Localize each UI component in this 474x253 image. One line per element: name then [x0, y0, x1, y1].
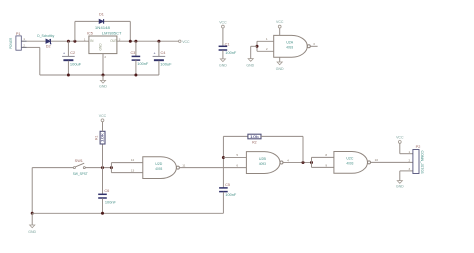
svg-text:SW_SPST: SW_SPST — [73, 172, 89, 176]
svg-text:GND: GND — [246, 63, 254, 67]
svg-text:12: 12 — [131, 158, 135, 162]
svg-text:10: 10 — [375, 158, 379, 162]
svg-text:R2: R2 — [252, 141, 257, 145]
svg-text:6: 6 — [236, 163, 238, 167]
svg-text:4093: 4093 — [155, 167, 162, 171]
svg-text:11: 11 — [182, 163, 185, 167]
svg-text:VCC: VCC — [99, 114, 107, 118]
svg-text:1N4148: 1N4148 — [95, 26, 110, 30]
svg-text:1: 1 — [84, 37, 86, 41]
svg-text:VCC: VCC — [276, 20, 284, 24]
svg-text:D2: D2 — [46, 44, 51, 48]
svg-text:2: 2 — [409, 158, 411, 162]
svg-text:IC5: IC5 — [87, 31, 93, 35]
svg-text:C1: C1 — [225, 42, 230, 46]
svg-text:4: 4 — [287, 158, 289, 162]
svg-text:5: 5 — [236, 153, 238, 157]
svg-text:2: 2 — [266, 47, 268, 51]
svg-text:100nF: 100nF — [225, 51, 237, 55]
svg-text:U2C: U2C — [346, 157, 353, 161]
svg-text:4093: 4093 — [259, 162, 266, 166]
svg-text:1: 1 — [23, 37, 25, 41]
svg-text:D_Schottky: D_Schottky — [37, 34, 54, 38]
svg-text:100uF: 100uF — [160, 62, 172, 66]
svg-text:9: 9 — [325, 163, 327, 167]
svg-text:4093: 4093 — [286, 46, 293, 50]
svg-text:10k: 10k — [101, 133, 105, 142]
svg-text:POWER: POWER — [9, 37, 13, 48]
svg-text:2: 2 — [23, 44, 25, 48]
svg-text:1: 1 — [266, 37, 268, 41]
svg-text:U2B: U2B — [259, 157, 266, 161]
svg-text:C3: C3 — [130, 51, 135, 55]
svg-text:100nF: 100nF — [225, 193, 237, 197]
svg-text:1: 1 — [409, 150, 411, 154]
svg-text:GND: GND — [219, 64, 227, 68]
svg-text:8: 8 — [325, 153, 327, 157]
svg-text:P2: P2 — [416, 145, 421, 149]
svg-text:P1: P1 — [16, 32, 21, 36]
svg-text:U2D: U2D — [155, 162, 162, 166]
svg-text:100uF: 100uF — [70, 62, 82, 66]
svg-text:GND: GND — [99, 84, 107, 88]
svg-text:CONN_JST03: CONN_JST03 — [420, 151, 424, 174]
svg-text:D1: D1 — [99, 12, 104, 16]
svg-text:3: 3 — [313, 42, 315, 46]
svg-text:C6: C6 — [104, 189, 109, 193]
svg-text:U2A: U2A — [286, 41, 293, 45]
svg-text:GND: GND — [99, 43, 103, 51]
svg-text:C2: C2 — [70, 51, 75, 55]
svg-text:LM7805CT: LM7805CT — [102, 31, 122, 35]
svg-text:+: + — [63, 51, 65, 55]
svg-text:10k: 10k — [250, 135, 259, 139]
svg-text:GND: GND — [276, 67, 284, 71]
svg-text:SW1: SW1 — [75, 159, 83, 163]
svg-text:3: 3 — [409, 167, 411, 171]
svg-text:OUT: OUT — [110, 39, 117, 43]
svg-text:VCC: VCC — [219, 20, 227, 24]
svg-text:13: 13 — [131, 169, 135, 173]
svg-text:R1: R1 — [95, 135, 99, 139]
svg-text:VCC: VCC — [396, 135, 404, 139]
svg-text:VCC: VCC — [182, 40, 190, 44]
svg-text:100nF: 100nF — [105, 201, 117, 205]
svg-text:C5: C5 — [225, 183, 230, 187]
svg-text:GND: GND — [396, 184, 404, 188]
svg-text:C4: C4 — [160, 51, 165, 55]
svg-text:100nF: 100nF — [137, 62, 149, 66]
svg-text:GND: GND — [28, 230, 36, 234]
svg-text:+: + — [154, 51, 156, 55]
svg-text:4093: 4093 — [346, 162, 353, 166]
svg-text:2: 2 — [104, 55, 106, 59]
